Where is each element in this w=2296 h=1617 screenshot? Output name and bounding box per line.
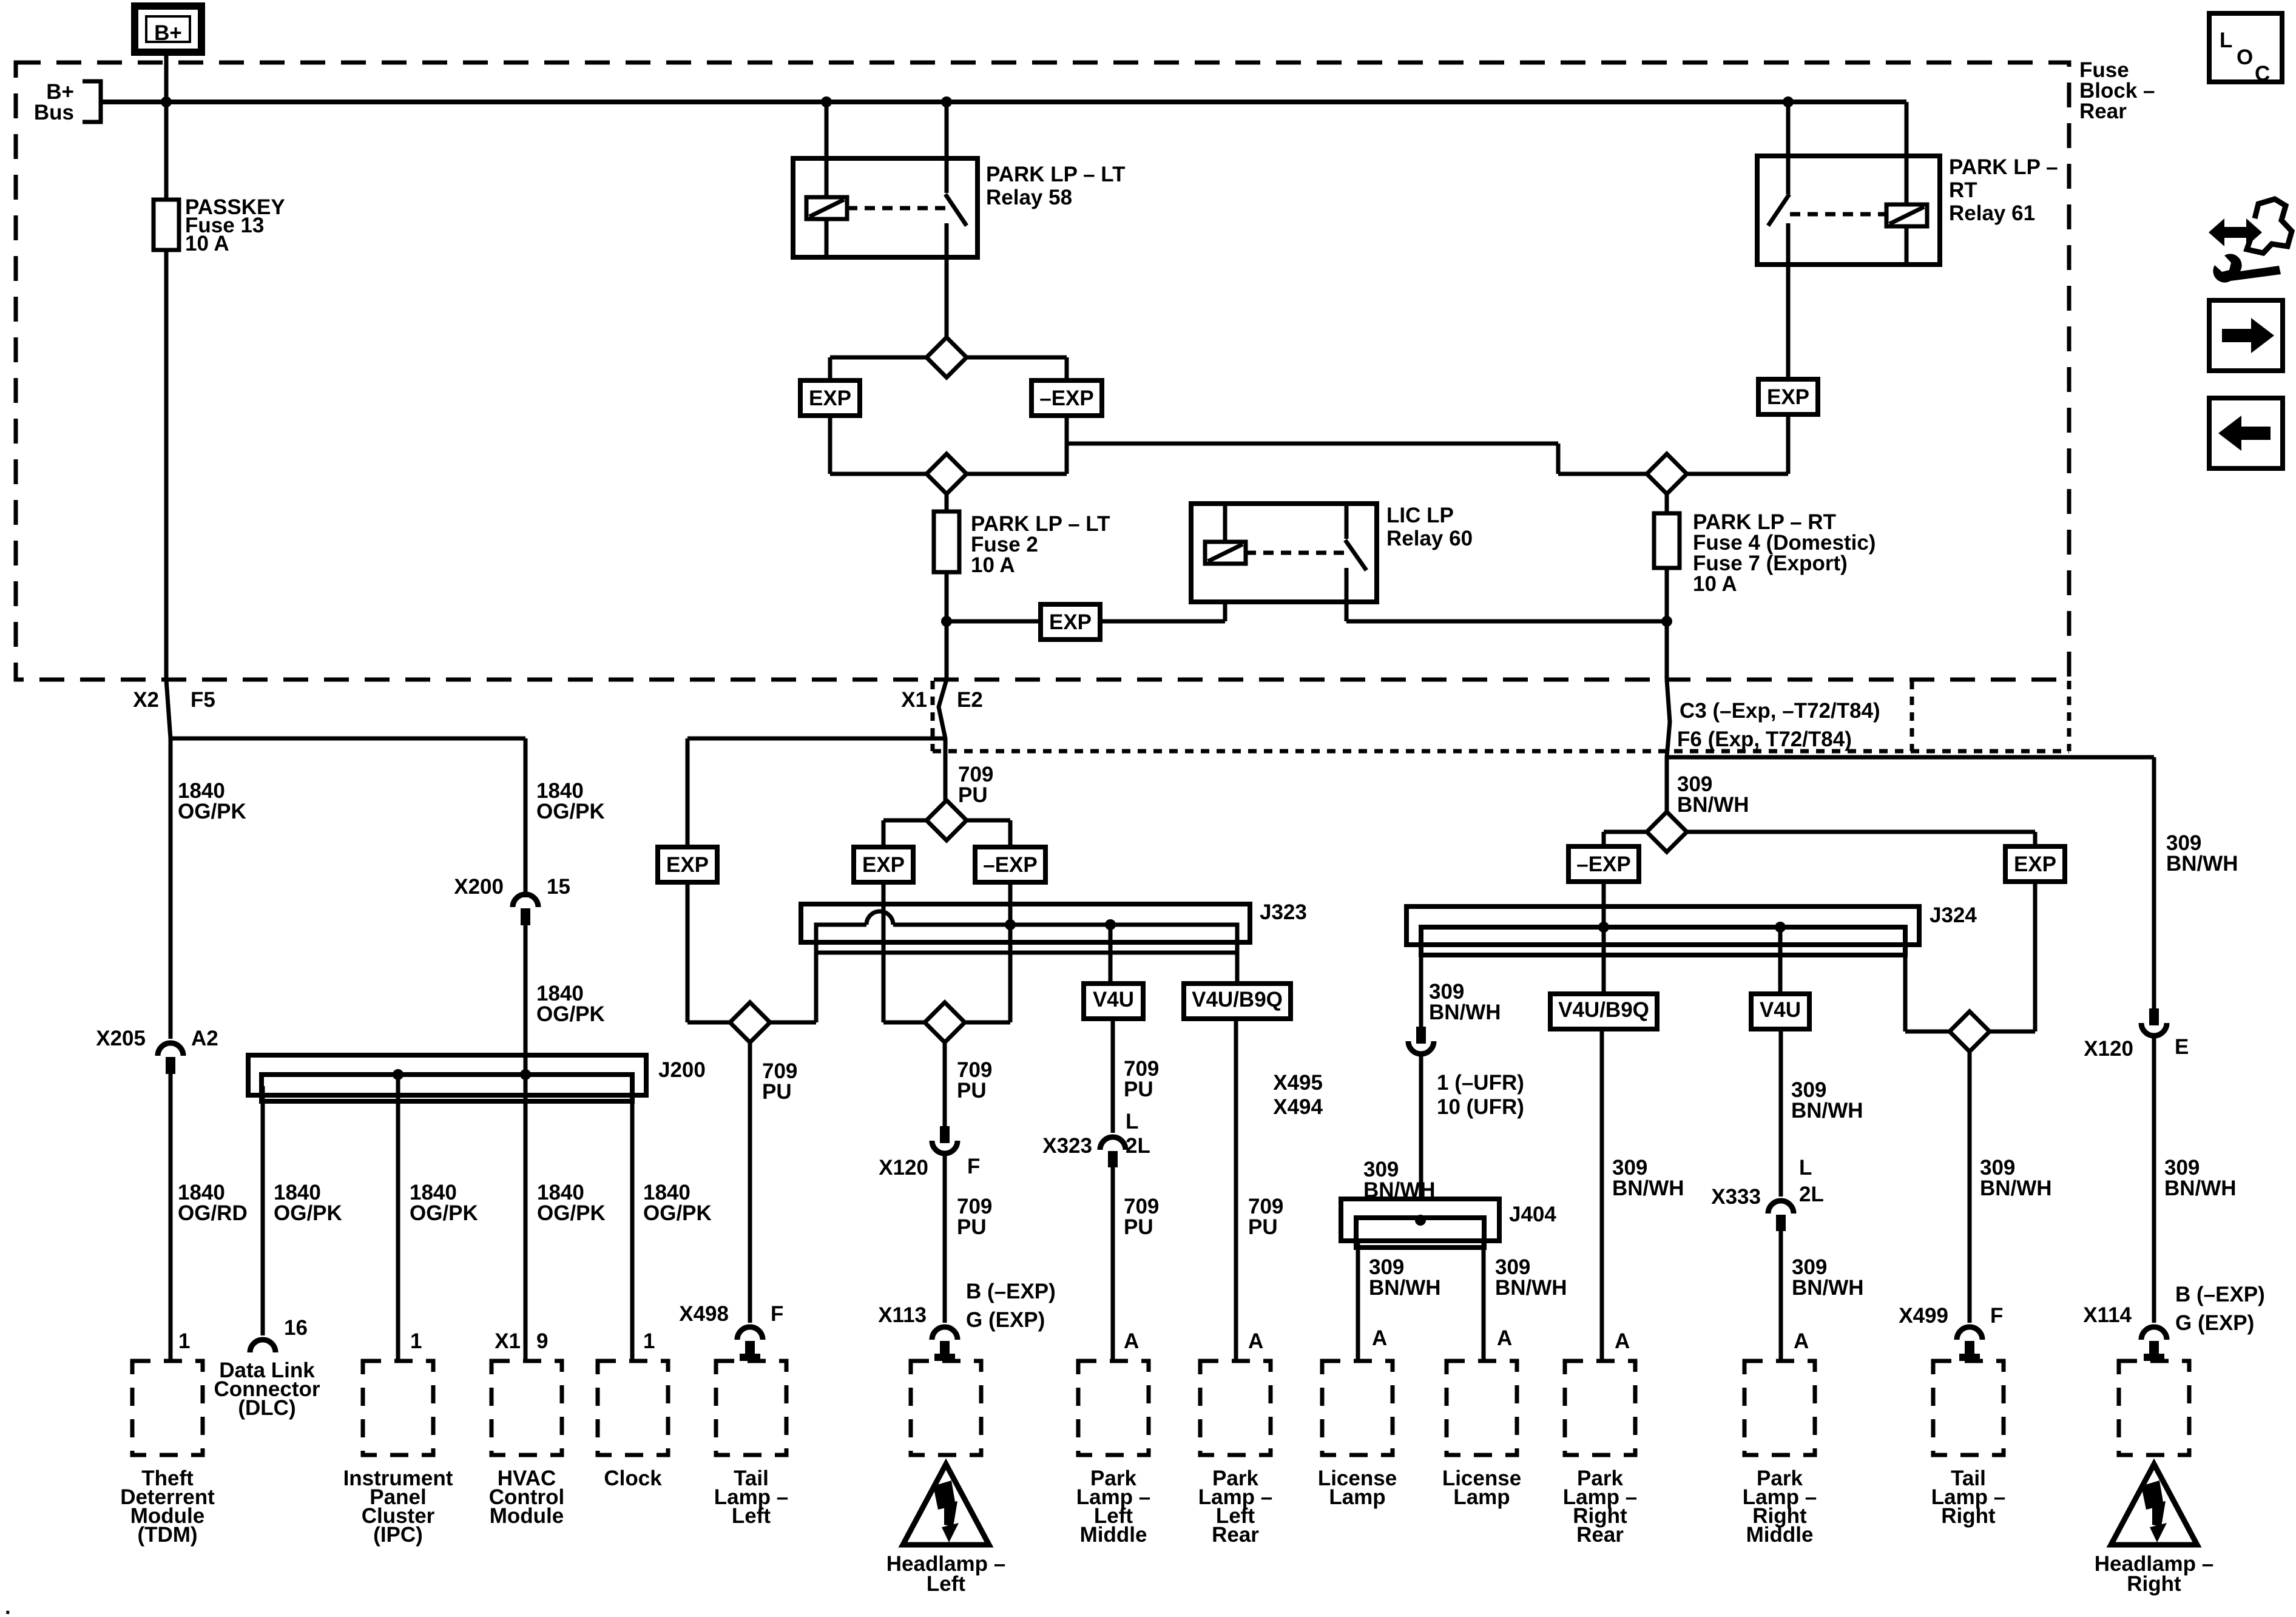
wire X120 to X113 bbox=[943, 1154, 947, 1323]
-EXP box (relay58 right) bbox=[1032, 380, 1102, 416]
svg-text:Rear: Rear bbox=[2079, 100, 2127, 123]
splice diamond under relay58 bbox=[927, 337, 967, 377]
svg-text:X205: X205 bbox=[96, 1027, 146, 1050]
svg-text:Relay 60: Relay 60 bbox=[1386, 527, 1473, 550]
wire relay60 switch to fuse4 junction bbox=[1346, 602, 1667, 621]
wire B+ to bus bbox=[164, 51, 169, 102]
svg-text:J404: J404 bbox=[1509, 1203, 1556, 1226]
svg-text:PU: PU bbox=[1248, 1215, 1278, 1239]
junction block J404 bbox=[1341, 1199, 1499, 1241]
-EXP box headlamp branch bbox=[975, 847, 1045, 882]
svg-text:BN/WH: BN/WH bbox=[1369, 1276, 1441, 1300]
B+ bus bracket bbox=[83, 81, 101, 122]
svg-text:X200: X200 bbox=[454, 875, 504, 899]
connector X120 / F bbox=[940, 1126, 950, 1143]
svg-text:X333: X333 bbox=[1711, 1185, 1761, 1209]
svg-text:1 (–UFR): 1 (–UFR) bbox=[1437, 1071, 1524, 1095]
svg-text:OG/PK: OG/PK bbox=[536, 1002, 605, 1026]
relay R60 box bbox=[1191, 504, 1377, 602]
svg-text:EXP: EXP bbox=[1767, 385, 1809, 409]
svg-text:J323: J323 bbox=[1260, 900, 1307, 924]
svg-text:OG/PK: OG/PK bbox=[536, 800, 605, 823]
svg-text:G (EXP): G (EXP) bbox=[966, 1308, 1045, 1332]
relay R60 dashed link bbox=[1246, 551, 1345, 555]
fuse F13 PASSKEY bbox=[154, 200, 179, 250]
svg-text:–EXP: –EXP bbox=[1039, 387, 1094, 410]
connector X323 / 2L bbox=[1100, 1137, 1126, 1150]
svg-text:J324: J324 bbox=[1930, 903, 1977, 927]
svg-text:F5: F5 bbox=[191, 688, 215, 712]
wire J200 to Clock bbox=[630, 1086, 635, 1361]
relay R61 coil bbox=[1886, 204, 1927, 226]
svg-text:1: 1 bbox=[178, 1329, 190, 1353]
svg-text:B (–EXP): B (–EXP) bbox=[2175, 1283, 2265, 1306]
svg-text:BN/WH: BN/WH bbox=[1792, 1276, 1864, 1300]
svg-text:X120: X120 bbox=[879, 1156, 928, 1180]
svg-text:BN/WH: BN/WH bbox=[2164, 1176, 2237, 1200]
Park Lamp Left Middle box bbox=[1078, 1361, 1149, 1455]
svg-text:J200: J200 bbox=[658, 1058, 706, 1082]
LOC legend box bbox=[2209, 13, 2282, 82]
relay R58 switch blade bbox=[945, 158, 949, 193]
wire V4U right to X333 bbox=[1779, 1029, 1783, 1197]
svg-text:Module: Module bbox=[490, 1504, 564, 1528]
svg-text:OG/PK: OG/PK bbox=[643, 1201, 712, 1225]
svg-text:C: C bbox=[2255, 62, 2270, 86]
wire EXP to relay60 coil bbox=[1100, 561, 1225, 621]
svg-text:(IPC): (IPC) bbox=[373, 1523, 423, 1547]
svg-text:BN/WH: BN/WH bbox=[2166, 852, 2238, 876]
wire J323 inner edge to tail left diamond bbox=[770, 953, 816, 1022]
svg-text:OG/PK: OG/PK bbox=[410, 1201, 478, 1225]
splice diamond headlamp left bbox=[925, 1002, 965, 1042]
relay R61 switch blade bbox=[1768, 194, 1789, 226]
relay R61 box bbox=[1757, 156, 1940, 265]
splice diamond above fuse2 bbox=[927, 454, 967, 494]
svg-text:F6 (Exp, T72/T84): F6 (Exp, T72/T84) bbox=[1677, 727, 1852, 751]
Tail Lamp Right box bbox=[1933, 1361, 2004, 1455]
svg-text:EXP: EXP bbox=[2014, 852, 2056, 876]
License Lamp box 1 bbox=[1322, 1361, 1393, 1455]
svg-text:Right: Right bbox=[2127, 1572, 2181, 1596]
B+ terminal bbox=[135, 6, 201, 52]
svg-text:E2: E2 bbox=[957, 688, 983, 712]
svg-text:Middle: Middle bbox=[1746, 1523, 1814, 1547]
svg-text:PU: PU bbox=[958, 783, 988, 807]
svg-text:X1: X1 bbox=[495, 1329, 521, 1353]
svg-text:EXP: EXP bbox=[862, 853, 905, 877]
wire V4U/B9Q right to park lamp right rear bbox=[1600, 1029, 1604, 1361]
svg-text:B+: B+ bbox=[154, 21, 182, 45]
svg-text:Middle: Middle bbox=[1080, 1523, 1147, 1547]
svg-text:V4U: V4U bbox=[1760, 998, 1801, 1022]
wire J404 to license lamp 2 bbox=[1482, 1239, 1486, 1361]
svg-text:10 (UFR): 10 (UFR) bbox=[1437, 1095, 1524, 1119]
bus hop over EXP wire bbox=[866, 911, 893, 925]
svg-text:F: F bbox=[1990, 1304, 2003, 1328]
relay R61 switch feed bbox=[1786, 156, 1791, 194]
V4U box right bbox=[1751, 994, 1809, 1029]
svg-text:BN/WH: BN/WH bbox=[1980, 1176, 2052, 1200]
wire -EXP down to V4U/B9Q bbox=[1602, 882, 1606, 994]
svg-text:X120: X120 bbox=[2084, 1037, 2133, 1061]
EXP box headlamp branch bbox=[854, 847, 913, 882]
wire passkey fuse down to X2/F5 bbox=[164, 250, 169, 680]
svg-text:Relay 61: Relay 61 bbox=[1949, 201, 2035, 225]
svg-text:EXP: EXP bbox=[1049, 610, 1092, 634]
junction block J323 bbox=[801, 904, 1250, 942]
svg-text:EXP: EXP bbox=[809, 387, 851, 410]
svg-text:A: A bbox=[1124, 1329, 1139, 1353]
wire diamond to X499 bbox=[1968, 1052, 1972, 1323]
svg-text:BN/WH: BN/WH bbox=[1677, 793, 1749, 817]
EXP box tail lamp left branch bbox=[658, 847, 717, 882]
junction dot fuse4 output bbox=[1661, 616, 1672, 627]
splice diamond tail lamp right bbox=[1950, 1011, 1990, 1052]
wire J324 inner edge to tail right diamond bbox=[1905, 955, 1950, 1031]
wire EXP down to diamond bbox=[1687, 414, 1788, 474]
junction block J200 bbox=[248, 1055, 646, 1095]
wire fuse4 down to C3/F6 bbox=[1665, 568, 1669, 680]
relay R58 dashed link bbox=[847, 206, 947, 211]
wire to EXP (left) bbox=[883, 820, 927, 847]
branch to X200 bbox=[171, 737, 525, 741]
svg-text:(DLC): (DLC) bbox=[238, 1396, 295, 1420]
wire diamond to X498 bbox=[748, 1042, 752, 1323]
svg-text:2L: 2L bbox=[1799, 1183, 1824, 1206]
svg-text:OG/PK: OG/PK bbox=[274, 1201, 342, 1225]
wire X120/E to X114 bbox=[2152, 1036, 2156, 1323]
svg-text:2L: 2L bbox=[1126, 1134, 1150, 1158]
svg-text:V4U/B9Q: V4U/B9Q bbox=[1192, 988, 1283, 1011]
svg-text:A: A bbox=[1372, 1326, 1387, 1350]
splice diamond tail lamp left bbox=[730, 1002, 770, 1042]
splice diamond above fuse4 bbox=[1647, 454, 1687, 494]
bus wire bbox=[101, 100, 1906, 104]
svg-text:15: 15 bbox=[547, 875, 570, 899]
svg-text:A: A bbox=[1794, 1329, 1809, 1353]
EXP box (relay61) bbox=[1758, 379, 1818, 414]
Headlamp Right box bbox=[2119, 1361, 2189, 1455]
svg-text:L: L bbox=[1799, 1156, 1812, 1180]
Clock box bbox=[598, 1361, 668, 1455]
connector X113 bbox=[932, 1327, 957, 1340]
svg-text:10 A: 10 A bbox=[185, 232, 229, 255]
svg-text:(TDM): (TDM) bbox=[137, 1523, 197, 1547]
wire diamond to fuse2 bbox=[945, 494, 949, 511]
connector X200 / 15 bbox=[513, 894, 538, 907]
wire J200 to IPC bbox=[396, 1075, 400, 1361]
branch to tail lamp left EXP bbox=[687, 738, 947, 847]
relay R58 coil bbox=[806, 197, 847, 219]
svg-text:Clock: Clock bbox=[604, 1467, 662, 1490]
junction dots on bus bbox=[161, 96, 172, 107]
Park Lamp Right Rear box bbox=[1565, 1361, 1635, 1455]
wire J200 to DLC bbox=[261, 1086, 265, 1335]
Theft Deterrent Module box bbox=[132, 1361, 203, 1455]
wire tail-left EXP down to diamond bbox=[687, 882, 730, 1022]
wire -EXP down, tee to relay61 branch bbox=[967, 416, 1067, 474]
wire to EXP (lic lp feed) bbox=[947, 619, 1041, 624]
wire branch down to X200 bbox=[524, 738, 528, 897]
EXP box (lic lp feed) bbox=[1041, 604, 1100, 640]
relay R58 box bbox=[793, 158, 977, 257]
connector X498 / F bbox=[737, 1327, 763, 1340]
svg-text:X113: X113 bbox=[878, 1303, 927, 1327]
svg-text:BN/WH: BN/WH bbox=[1791, 1099, 1863, 1122]
wire relay61 to EXP bbox=[1786, 265, 1791, 379]
svg-text:Rear: Rear bbox=[1576, 1523, 1624, 1547]
wire V4U to X323 bbox=[1111, 1019, 1115, 1133]
connector X120 / E bbox=[2149, 1008, 2159, 1025]
splice diamond under C3 bbox=[1647, 812, 1687, 852]
connector X205 / A2 bbox=[158, 1043, 183, 1056]
svg-text:1: 1 bbox=[410, 1329, 422, 1353]
svg-text:A2: A2 bbox=[191, 1027, 218, 1050]
relay R61 coil feed bbox=[1905, 156, 1909, 204]
V4U/B9Q box left bbox=[1184, 984, 1291, 1019]
svg-text:BN/WH: BN/WH bbox=[1612, 1176, 1684, 1200]
svg-text:RT: RT bbox=[1949, 178, 1977, 202]
Instrument Panel Cluster box bbox=[363, 1361, 433, 1455]
connector X114 bbox=[2141, 1327, 2167, 1340]
warning triangle headlamp left bbox=[903, 1464, 989, 1545]
HVAC Control Module box bbox=[491, 1361, 562, 1455]
svg-text:Right: Right bbox=[1941, 1504, 1996, 1528]
fuse block - rear dashed border bbox=[16, 62, 2069, 680]
wire to EXP right bbox=[1687, 832, 2035, 846]
svg-text:OG/PK: OG/PK bbox=[178, 800, 246, 823]
svg-text:PU: PU bbox=[1124, 1078, 1153, 1101]
svg-text:V4U: V4U bbox=[1093, 988, 1134, 1011]
wire X1 down bbox=[939, 680, 947, 800]
Headlamp Left box bbox=[911, 1361, 981, 1455]
wire branch down to X120/E bbox=[2152, 757, 2156, 1008]
svg-text:PU: PU bbox=[762, 1080, 792, 1104]
svg-text:Left: Left bbox=[927, 1572, 966, 1596]
wire diamond to X120/F bbox=[943, 1042, 947, 1126]
svg-text:F: F bbox=[967, 1155, 980, 1178]
wire V4U/B9Q to park lamp left rear bbox=[1234, 1019, 1238, 1361]
wire diamond to -EXP right bbox=[967, 357, 1067, 380]
V4U box left bbox=[1084, 984, 1143, 1019]
svg-text:PU: PU bbox=[957, 1215, 987, 1239]
wire bus to passkey fuse bbox=[164, 102, 169, 200]
svg-text:BN/WH: BN/WH bbox=[1495, 1276, 1567, 1300]
License Lamp box 2 bbox=[1447, 1361, 1517, 1455]
svg-text:9: 9 bbox=[536, 1329, 548, 1353]
svg-text:Lamp: Lamp bbox=[1329, 1485, 1385, 1509]
wire -EXP down through J323 bbox=[965, 882, 1010, 1022]
svg-text:F: F bbox=[771, 1302, 783, 1326]
svg-text:A: A bbox=[1497, 1326, 1512, 1350]
wire EXP down through J323 (hop) bbox=[883, 882, 925, 1022]
wire J323 inner edge to V4U/B9Q bbox=[1235, 953, 1240, 984]
svg-text:Left: Left bbox=[732, 1504, 771, 1528]
Park Lamp Right Middle box bbox=[1744, 1361, 1815, 1455]
svg-text:–EXP: –EXP bbox=[1576, 852, 1631, 876]
svg-text:X498: X498 bbox=[679, 1302, 729, 1326]
relay R60 coil bbox=[1205, 542, 1246, 564]
svg-text:L: L bbox=[1126, 1110, 1138, 1133]
fuse F2 PARK LP - LT bbox=[934, 511, 959, 572]
relay R61 dashed link bbox=[1790, 212, 1886, 217]
svg-text:BN/WH: BN/WH bbox=[1429, 1001, 1501, 1024]
wire X205 to TDM bbox=[169, 1074, 173, 1361]
wire X495 to J404 bbox=[1419, 1055, 1423, 1199]
junction dot fuse2 output bbox=[941, 616, 952, 627]
wire J200 to HVAC bbox=[524, 1075, 528, 1361]
-EXP box right side bbox=[1568, 846, 1639, 882]
svg-text:X1: X1 bbox=[901, 688, 927, 712]
svg-text:B (–EXP): B (–EXP) bbox=[966, 1280, 1056, 1303]
V4U/B9Q box right bbox=[1550, 994, 1657, 1029]
svg-text:A: A bbox=[1615, 1329, 1630, 1353]
connector X333 / 2L bbox=[1768, 1201, 1794, 1214]
svg-text:16: 16 bbox=[284, 1316, 308, 1340]
wire EXP down to lower diamond bbox=[830, 416, 927, 474]
EXP box (relay58 left) bbox=[800, 380, 860, 416]
wire bus to relay61 switch bbox=[1786, 102, 1791, 193]
wire J404 to license lamp 1 bbox=[1356, 1239, 1360, 1361]
branch to headlamp right bbox=[1667, 755, 2154, 760]
back arrow box bbox=[2209, 398, 2283, 468]
svg-text:PARK LP – LT: PARK LP – LT bbox=[986, 163, 1125, 186]
wire diamond to EXP left bbox=[830, 357, 927, 380]
svg-text:PARK LP –: PARK LP – bbox=[1949, 155, 2058, 179]
svg-text:PU: PU bbox=[957, 1079, 987, 1102]
splice diamond under X1 bbox=[927, 800, 967, 840]
wire J323 to V4U bbox=[1109, 925, 1113, 984]
Park Lamp Left Rear box bbox=[1200, 1361, 1271, 1455]
svg-text:X495: X495 bbox=[1273, 1071, 1323, 1095]
svg-text:10 A: 10 A bbox=[1693, 572, 1737, 596]
wire bus to relay58 switch bbox=[945, 102, 949, 193]
wire bus end to relay61 coil bbox=[1905, 102, 1909, 204]
wire to -EXP (right) bbox=[967, 820, 1010, 847]
svg-text:G (EXP): G (EXP) bbox=[2175, 1311, 2254, 1335]
wire EXP down to tail right diamond bbox=[1990, 882, 2035, 1031]
wire J324 to X495 bbox=[1419, 955, 1423, 1027]
svg-text:C3 (–Exp, –T72/T84): C3 (–Exp, –T72/T84) bbox=[1680, 699, 1880, 723]
svg-text:L: L bbox=[2220, 29, 2232, 52]
body repair icon bbox=[2209, 218, 2262, 246]
wire fuse2 down to X1/E2 bbox=[945, 572, 949, 680]
wire X200 to J200 bbox=[524, 925, 528, 1075]
svg-text:O: O bbox=[2237, 46, 2253, 69]
svg-text:EXP: EXP bbox=[666, 853, 709, 877]
relay R58 coil feed bbox=[825, 158, 829, 197]
svg-text:Relay 58: Relay 58 bbox=[986, 186, 1072, 209]
svg-text:10 A: 10 A bbox=[971, 553, 1015, 577]
fuse F4/F7 PARK LP - RT bbox=[1654, 513, 1680, 568]
svg-text:X2: X2 bbox=[133, 688, 159, 712]
wire J324 to V4U right bbox=[1778, 927, 1783, 994]
junction block J324 bbox=[1406, 906, 1919, 945]
svg-text:X323: X323 bbox=[1042, 1134, 1092, 1158]
svg-text:A: A bbox=[1248, 1329, 1263, 1353]
wire diamond to fuse4 bbox=[1665, 494, 1669, 513]
svg-text:OG/PK: OG/PK bbox=[537, 1201, 606, 1225]
svg-text:X499: X499 bbox=[1899, 1304, 1948, 1328]
connector X495/X494 bbox=[1416, 1027, 1426, 1044]
svg-text:Bus: Bus bbox=[34, 101, 74, 124]
svg-text:Lamp: Lamp bbox=[1453, 1485, 1510, 1509]
svg-text:1: 1 bbox=[643, 1329, 655, 1353]
connector boundary dotted line bbox=[933, 749, 2069, 754]
warning triangle headlamp right bbox=[2111, 1464, 2197, 1545]
svg-text:X494: X494 bbox=[1273, 1095, 1323, 1119]
svg-text:E: E bbox=[2175, 1035, 2189, 1059]
wire bus to relay58 coil bbox=[825, 102, 829, 197]
wire C3 down to diamond bbox=[1667, 680, 1670, 812]
svg-text:V4U/B9Q: V4U/B9Q bbox=[1558, 998, 1649, 1022]
wire relay58 to diamond bbox=[945, 257, 949, 337]
svg-text:X114: X114 bbox=[2083, 1303, 2132, 1327]
svg-text:LIC LP: LIC LP bbox=[1386, 504, 1454, 527]
connector X499 / F bbox=[1957, 1327, 1982, 1340]
wire to -EXP bbox=[1604, 832, 1647, 846]
svg-text:OG/RD: OG/RD bbox=[178, 1201, 248, 1225]
wire X2 down to X205 bbox=[166, 680, 171, 1039]
connector 16 at DLC bbox=[250, 1340, 275, 1352]
Tail Lamp Left box bbox=[716, 1361, 786, 1455]
svg-text:.: . bbox=[5, 1595, 11, 1617]
wire X333 to park lamp right middle bbox=[1779, 1231, 1783, 1361]
forward arrow box bbox=[2209, 300, 2283, 371]
wire X323 to park lamp left middle bbox=[1111, 1167, 1115, 1361]
relay R60 switch blade bbox=[1345, 504, 1349, 539]
EXP box right side bbox=[2005, 846, 2065, 882]
svg-text:Rear: Rear bbox=[1212, 1523, 1259, 1547]
svg-text:–EXP: –EXP bbox=[983, 853, 1038, 877]
svg-text:PU: PU bbox=[1124, 1215, 1153, 1239]
